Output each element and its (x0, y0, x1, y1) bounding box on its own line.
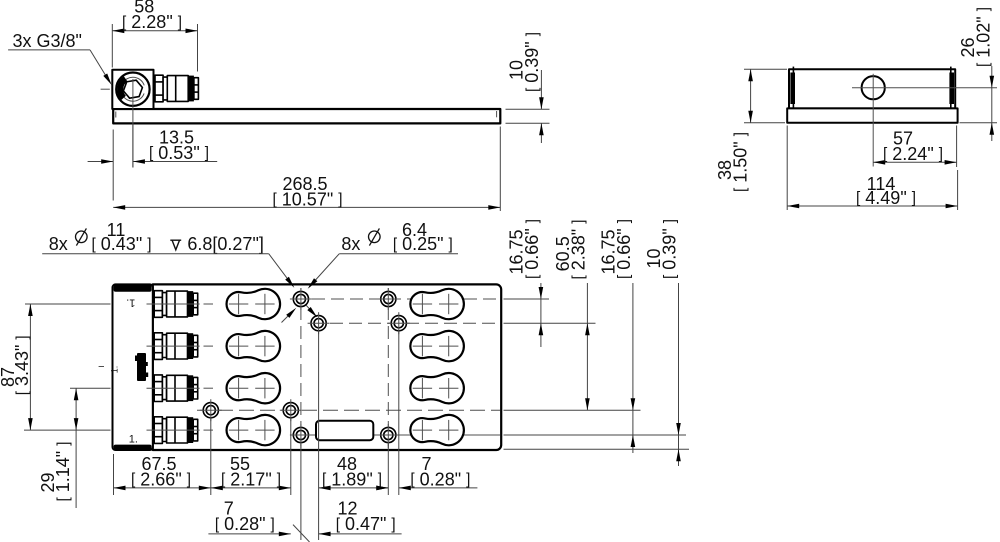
peanut slot left row 4 (227, 415, 281, 445)
dim 268.5 line (113, 206, 500, 208)
dim 29 extension line (70, 387, 111, 389)
svg-text:[ 1.89" ]: [ 1.89" ] (322, 469, 382, 489)
plan fitting 4 release ring (black) (188, 417, 194, 443)
peanut slot right row 1 (410, 289, 464, 319)
svg-text:6.8[0.27"]: 6.8[0.27"] (187, 234, 263, 254)
svg-text:[ 0.47" ]: [ 0.47" ] (336, 514, 396, 534)
port circle (116, 73, 149, 106)
label1 leader far-side arrow (282, 311, 294, 323)
dim 12 row2 line (319, 533, 402, 535)
dim 87 line (29, 304, 31, 430)
fitting row 1 centerline (147, 303, 200, 305)
dim 13.5 line (88, 161, 114, 163)
dim 57 arrows (873, 160, 885, 165)
svg-text:[ 0.39" ]: [ 0.39" ] (660, 219, 680, 279)
label2 leader (309, 254, 339, 287)
hole row 3 dashed centerline (197, 409, 500, 411)
block logo (137, 353, 146, 381)
hole row 4 centerline (292, 434, 500, 436)
plan plate outline (153, 284, 501, 450)
dim 10 arrows (539, 97, 544, 109)
svg-text:3x G3/8": 3x G3/8" (13, 31, 82, 51)
svg-text:[ 2.38" ]: [ 2.38" ] (568, 220, 588, 280)
svg-text:[ 10.57" ]: [ 10.57" ] (273, 189, 343, 209)
hole B (311, 316, 326, 331)
side fitting dark thread edge (154, 76, 156, 102)
svg-text:[ 0.66" ]: [ 0.66" ] (614, 219, 634, 279)
plan fitting 3 sleeve tip (193, 377, 198, 399)
plan left block (113, 284, 153, 450)
end view body (789, 69, 955, 108)
svg-text:[ 1.50" ]: [ 1.50" ] (730, 132, 750, 192)
port inner arcs (122, 77, 145, 85)
side fitting hex section (155, 75, 163, 102)
side fitting collar (163, 77, 167, 100)
hole C (381, 291, 396, 306)
peanut slot left row 3 (227, 373, 281, 403)
dim 38 extension lines (744, 68, 787, 70)
hole row 1 dashed centerline (293, 298, 500, 300)
port dark crescent (120, 79, 125, 98)
dim 58 line (112, 30, 197, 32)
end view tab top ticks (792, 67, 794, 70)
dim 114 arrows (787, 204, 799, 209)
label1 underline (42, 253, 269, 255)
svg-text:[ 0.53" ]: [ 0.53" ] (149, 143, 209, 163)
fitting row 3 centerline (147, 387, 200, 389)
dim 114 extension lines (786, 126, 788, 211)
hole G (293, 427, 308, 442)
dim 57 line (873, 161, 956, 163)
plan fitting 1 release ring (black) (188, 291, 194, 317)
plan fitting 3 release ring (black) (188, 375, 194, 401)
plan fitting 2 dark thread edge (153, 333, 155, 359)
plan fitting 4 dark thread edge (153, 417, 155, 443)
svg-text:[ 3.43" ]: [ 3.43" ] (12, 335, 32, 395)
dim 10 line (540, 70, 542, 109)
svg-text:[ 0.25" ]: [ 0.25" ] (393, 234, 453, 254)
dim 268.5 arrows (113, 205, 125, 210)
dim 26 extension line (960, 122, 998, 124)
peanut slot left row 2 (227, 331, 281, 361)
dim 13.5 extension lines (112, 130, 114, 201)
plan fitting 3 body (167, 375, 188, 401)
end view vertical centerline (872, 74, 874, 167)
hex socket (123, 80, 142, 98)
hole A (counterbored, leader target) (293, 291, 308, 306)
svg-text:[ 2.28" ]: [ 2.28" ] (122, 12, 182, 32)
end view base plate (787, 108, 957, 122)
svg-text:[ 2.17" ]: [ 2.17" ] (221, 469, 281, 489)
svg-text:8x: 8x (341, 234, 360, 254)
label2 leader far-side arrow (306, 305, 314, 314)
side view vertical centerline (132, 79, 134, 168)
plan fitting 4 body (167, 417, 188, 443)
side view block (112, 70, 153, 109)
plan fitting 1 body (167, 291, 188, 317)
depth symbol (170, 239, 181, 241)
plan fitting 3 hex section (154, 375, 162, 402)
svg-text:[ 0.39" ]: [ 0.39" ] (522, 32, 542, 92)
plan fitting 1 sleeve tip (193, 293, 198, 315)
svg-text:[ 2.66" ]: [ 2.66" ] (131, 469, 191, 489)
plan fitting 1 hex section (154, 291, 162, 318)
plan fitting 1 collar (162, 293, 166, 316)
label2 underline (339, 253, 458, 255)
end view circle (862, 76, 885, 99)
label 3x G3/8 leader (90, 50, 110, 82)
svg-text:1.: 1. (129, 434, 138, 446)
dim 13.5 arrows (101, 159, 113, 164)
side fitting body (167, 76, 188, 102)
dim 57 extension line (956, 126, 958, 168)
end view left tab (790, 73, 795, 105)
dim 16.75 lower line (632, 283, 634, 453)
plan fitting 3 collar (162, 377, 166, 400)
dim 60.5 line (586, 283, 588, 410)
dim 38 arrows (748, 69, 753, 81)
svg-text:[ 4.49" ]: [ 4.49" ] (856, 188, 916, 208)
block top dark bar (114, 285, 152, 292)
side fitting release ring (black) (188, 76, 194, 102)
plan fitting 3 dark thread edge (153, 375, 155, 401)
side fitting sleeve tip (194, 78, 199, 100)
dim 7 row2 line (208, 533, 290, 535)
dim 268.5 extension line right (499, 127, 501, 212)
vertical dashed centerline B (387, 288, 389, 448)
dim 7 row1 line (376, 487, 389, 489)
plan fitting 4 collar (162, 419, 166, 442)
svg-text:1.: 1. (126, 297, 135, 309)
bar tick left (115, 112, 117, 118)
plan fitting 1 dark thread edge (153, 291, 155, 317)
side view bar (manifold rail) (113, 109, 500, 123)
dim 87 extension lines (25, 303, 111, 305)
hole D (391, 316, 406, 331)
side view left centerline stub (101, 88, 110, 90)
peanut slot right row 2 (410, 331, 464, 361)
hole E (203, 403, 218, 418)
svg-text:[ 1.14" ]: [ 1.14" ] (53, 442, 73, 502)
svg-text:8x: 8x (49, 234, 68, 254)
dim 58 arrows (112, 29, 124, 34)
plan fitting 2 sleeve tip (193, 335, 198, 357)
hole H (381, 427, 396, 442)
block bottom dark bar (114, 445, 152, 450)
dim 10 plate line (678, 283, 680, 466)
peanut slot right row 3 (410, 373, 464, 403)
dim 48 line (319, 487, 389, 489)
dim 55 line (211, 487, 291, 489)
plan fitting 2 hex section (154, 333, 162, 360)
dim 26 arrows (990, 76, 995, 88)
plan fitting 4 sleeve tip (193, 419, 198, 441)
vertical dashed centerline A (300, 288, 302, 448)
svg-text:1.: 1. (110, 366, 120, 374)
rectangular slot (316, 421, 373, 440)
plan fitting 2 body (167, 333, 188, 359)
plan fitting 2 collar (162, 335, 166, 358)
svg-text:[ 1.02" ]: [ 1.02" ] (973, 7, 993, 67)
dim 114 line (787, 205, 957, 207)
label1 leader (269, 254, 293, 286)
svg-text:[ 0.66" ]: [ 0.66" ] (522, 219, 542, 279)
svg-text:[ 0.43" ]: [ 0.43" ] (92, 234, 152, 254)
dim 38 line (750, 69, 752, 123)
hole F (283, 403, 298, 418)
fitting row 4 centerline (147, 429, 200, 431)
plan fitting 2 release ring (black) (188, 333, 194, 359)
end view right tab (949, 73, 954, 105)
end view horizontal centerline (852, 87, 997, 89)
dim 10 extension lines (506, 108, 550, 110)
dim 26 line (991, 66, 993, 88)
hole row 2 dashed centerline (311, 322, 500, 324)
bottom extension lines (113, 454, 115, 495)
plan fitting 4 hex section (154, 417, 162, 444)
svg-text:[ 0.28" ]: [ 0.28" ] (215, 514, 275, 534)
right extension lines (504, 298, 550, 300)
oblique stroke (293, 525, 310, 542)
dim 16.75 upper line (540, 283, 542, 299)
bar tick right (496, 111, 498, 117)
svg-text:[ 0.28" ]: [ 0.28" ] (410, 469, 470, 489)
peanut slot left row 1 (227, 289, 281, 319)
dim 29 line (75, 388, 77, 508)
peanut slot right row 4 (410, 415, 464, 445)
dim 58 extension lines (111, 24, 113, 68)
svg-text:[ 2.24" ]: [ 2.24" ] (883, 144, 943, 164)
fitting row 2 centerline (147, 345, 200, 347)
dim 67.5 line (114, 487, 211, 489)
